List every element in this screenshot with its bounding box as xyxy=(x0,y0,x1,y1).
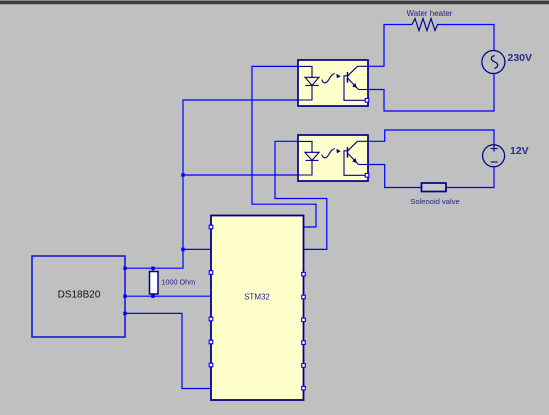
svg-text:STM32: STM32 xyxy=(244,292,270,301)
svg-text:Water heater: Water heater xyxy=(407,9,453,18)
svg-text:1000 Ohm: 1000 Ohm xyxy=(162,277,196,286)
svg-text:12V: 12V xyxy=(510,145,529,157)
svg-text:230V: 230V xyxy=(508,52,533,64)
svg-text:Solenoid valve: Solenoid valve xyxy=(410,197,459,206)
svg-text:DS18B20: DS18B20 xyxy=(58,290,101,301)
